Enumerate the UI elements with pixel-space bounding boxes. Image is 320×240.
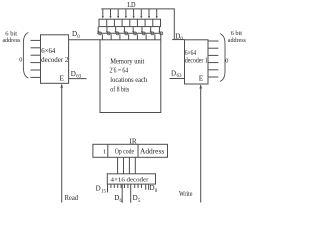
gate G6 bbox=[141, 27, 146, 40]
gate G8 bbox=[159, 27, 163, 35]
wire D0 right bbox=[172, 39, 184, 41]
svg-text:15: 15 bbox=[101, 190, 107, 195]
svg-text:6×64: 6×64 bbox=[41, 48, 56, 55]
svg-text:D: D bbox=[171, 69, 176, 77]
wire D63 left bbox=[69, 78, 87, 80]
right brace bbox=[220, 34, 225, 82]
gate G4 bbox=[124, 27, 129, 40]
svg-text:locations each: locations each bbox=[110, 77, 147, 84]
gate G7 bbox=[150, 27, 155, 40]
svg-text:E: E bbox=[199, 73, 204, 82]
wire load arrows into register bbox=[103, 9, 157, 16]
wire D6 line bbox=[121, 184, 123, 203]
wire gate chain line bbox=[97, 33, 161, 40]
wire opcode lines to decoder bbox=[118, 157, 136, 174]
gate G1 bbox=[97, 27, 102, 40]
svg-text:0: 0 bbox=[19, 56, 22, 63]
svg-text:1: 1 bbox=[103, 148, 106, 155]
svg-text:address: address bbox=[228, 37, 247, 44]
svg-text:63: 63 bbox=[76, 75, 82, 80]
wire E read line bbox=[61, 85, 63, 203]
svg-text:D: D bbox=[72, 30, 77, 38]
svg-text:IR: IR bbox=[130, 138, 137, 146]
wire LD top line bbox=[101, 9, 174, 40]
decoder 1 box bbox=[185, 40, 209, 84]
register MBR 8 cells bbox=[99, 19, 161, 26]
svg-text:Read: Read bbox=[65, 195, 79, 202]
wire D0 left bbox=[69, 39, 100, 41]
svg-text:D: D bbox=[96, 185, 101, 193]
svg-text:63: 63 bbox=[177, 74, 183, 79]
wire E write line bbox=[200, 85, 202, 202]
svg-text:Address: Address bbox=[140, 148, 165, 155]
svg-text:decoder 2: decoder 2 bbox=[41, 57, 69, 64]
svg-text:D: D bbox=[71, 70, 76, 78]
svg-text:E: E bbox=[60, 74, 65, 83]
gate G3 bbox=[115, 27, 120, 40]
svg-text:address: address bbox=[3, 37, 21, 44]
decoder output stubs bbox=[108, 184, 149, 192]
svg-text:LD: LD bbox=[127, 1, 135, 9]
svg-text:D: D bbox=[133, 194, 138, 202]
svg-text:decoder 1: decoder 1 bbox=[185, 58, 208, 65]
svg-text:D: D bbox=[150, 184, 155, 192]
4x16 decoder box bbox=[107, 174, 155, 184]
left brace bbox=[23, 33, 28, 79]
svg-text:6×64: 6×64 bbox=[185, 50, 197, 57]
decoder 1 input stubs bbox=[208, 41, 218, 77]
svg-text:Op code: Op code bbox=[115, 148, 134, 155]
svg-text:Write: Write bbox=[179, 191, 192, 198]
output gates row bbox=[97, 27, 162, 40]
gate G5 bbox=[132, 27, 137, 40]
IR register box bbox=[93, 144, 168, 157]
svg-text:0: 0 bbox=[225, 58, 228, 65]
svg-text:2′6 = 64: 2′6 = 64 bbox=[110, 68, 129, 75]
svg-text:D: D bbox=[114, 194, 119, 202]
decoder 2 input stubs bbox=[31, 40, 41, 77]
gate G2 bbox=[106, 27, 111, 40]
svg-text:of 8 bits: of 8 bits bbox=[110, 86, 129, 93]
decoder 2 box bbox=[41, 35, 69, 84]
wire D5 line bbox=[130, 184, 132, 203]
wire D63 right bbox=[170, 78, 185, 80]
arrowheads of load lines bbox=[102, 16, 158, 19]
svg-text:Memory unit: Memory unit bbox=[110, 58, 144, 65]
memory unit box bbox=[100, 40, 161, 113]
svg-text:4×16 decoder: 4×16 decoder bbox=[111, 177, 150, 184]
